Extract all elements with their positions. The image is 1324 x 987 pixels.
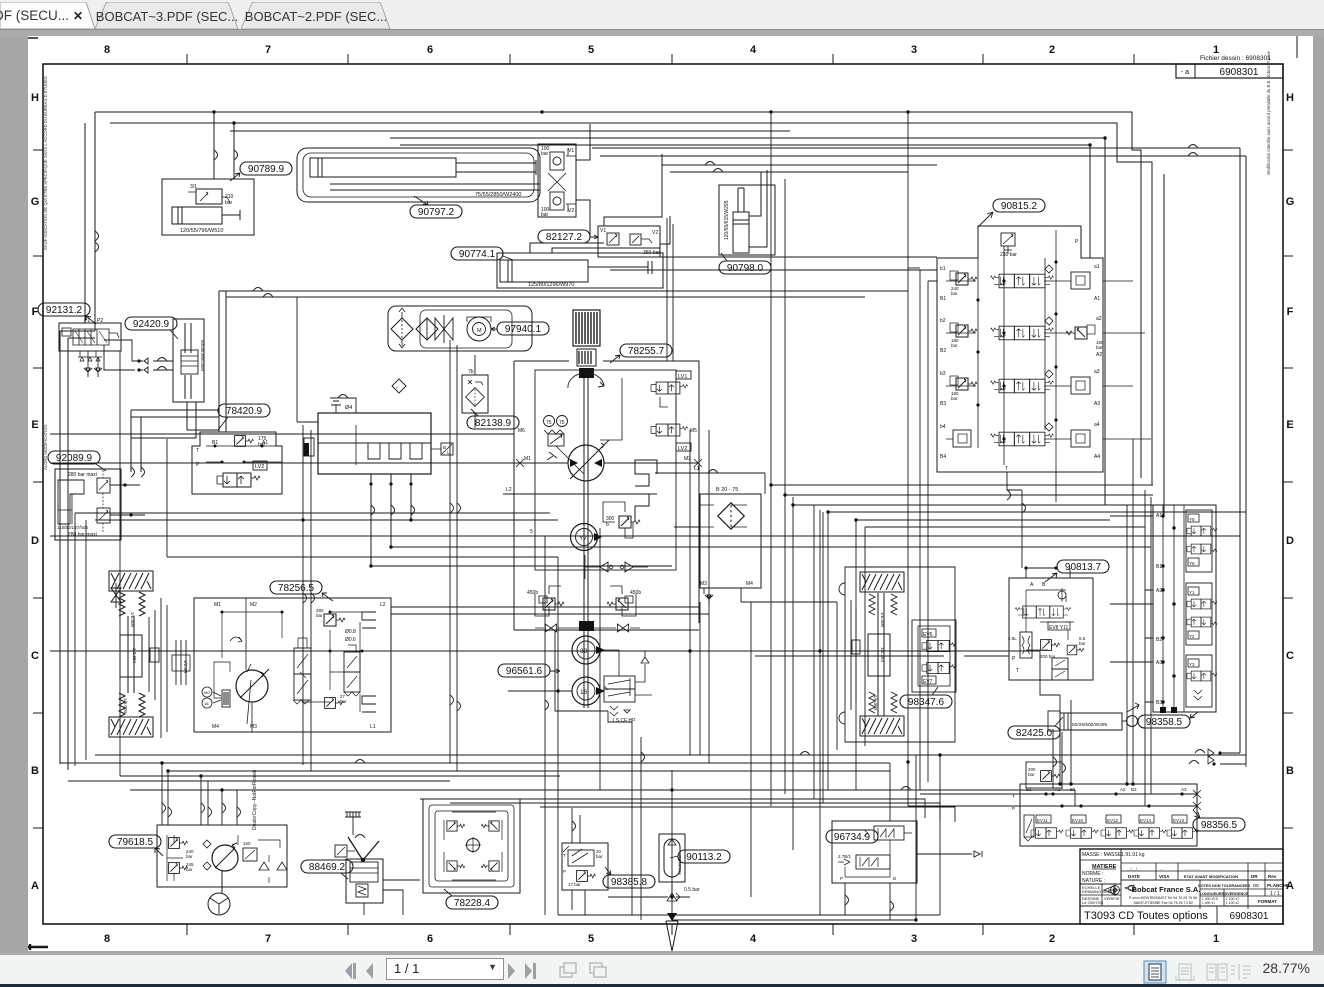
- svg-text:1/6.000: 1/6.000: [880, 612, 885, 628]
- shuttle spool right: [344, 652, 360, 672]
- svg-text:B1: B1: [1156, 564, 1162, 570]
- svg-text:B: B: [443, 445, 446, 450]
- svg-text:1/6.000: 1/6.000: [873, 695, 878, 711]
- svg-text:1/2.384: 1/2.384: [880, 647, 885, 663]
- projection symbol: [1104, 886, 1114, 894]
- svg-text:P: P: [1012, 656, 1016, 662]
- gerotor circle: [467, 839, 480, 852]
- wires into 78420.9 from top: [219, 291, 226, 432]
- wire L1 to filter: [674, 473, 765, 527]
- svg-text:M: M: [477, 328, 482, 334]
- svg-text:bar: bar: [541, 151, 549, 157]
- svg-text:H: H: [1286, 92, 1294, 104]
- svg-text:Fichier dessin : 6908301: Fichier dessin : 6908301: [1200, 55, 1271, 62]
- final drive coupling: [176, 640, 186, 685]
- callout 98356.5: [1193, 818, 1245, 831]
- svg-text:T: T: [1005, 466, 1008, 472]
- svg-text:Le 23/07/03: Le 23/07/03: [1082, 900, 1104, 905]
- svg-text:Rev: Rev: [1268, 874, 1277, 879]
- wire y557 rail: [167, 439, 558, 557]
- svg-text:B3: B3: [1131, 787, 1137, 792]
- svg-text:A1: A1: [1094, 296, 1100, 302]
- internal wires: [1026, 590, 1074, 650]
- return filter B20-75: [700, 494, 761, 588]
- track pad upper: [109, 571, 153, 591]
- callout 78228.4: [446, 896, 498, 909]
- wires 90774.1: [530, 243, 660, 253]
- svg-text:M3: M3: [700, 581, 707, 587]
- cluster boundary: [1020, 784, 1197, 846]
- svg-text:A3: A3: [1156, 660, 1162, 666]
- svg-text:a4: a4: [1094, 422, 1100, 428]
- svg-text:bar: bar: [340, 699, 347, 704]
- wire feeds right column: [1110, 516, 1153, 702]
- fan pump 16: [572, 677, 600, 705]
- svg-text:V1: V1: [568, 148, 574, 154]
- wire mid feeders: [662, 165, 937, 172]
- svg-text:3: 3: [911, 933, 917, 945]
- svg-text:bar: bar: [951, 291, 958, 296]
- svg-text:P1: P1: [84, 318, 90, 324]
- svg-text:90789.9: 90789.9: [248, 164, 285, 175]
- svg-text:B2: B2: [1070, 787, 1076, 792]
- svg-text:98358.5: 98358.5: [1146, 717, 1183, 728]
- 4 relief valves: [447, 821, 465, 831]
- svg-text:6: 6: [427, 44, 433, 56]
- svg-text:8: 8: [104, 44, 110, 56]
- svg-text:75/55/2850/W2400: 75/55/2850/W2400: [475, 192, 521, 198]
- svg-text:78256.5: 78256.5: [278, 583, 315, 594]
- svg-text:88469.2: 88469.2: [309, 862, 346, 873]
- svg-text:A: A: [1030, 582, 1034, 588]
- swing cylinder 90798.0 box: [719, 185, 775, 255]
- charge relief 300b: [619, 516, 640, 528]
- return filter 82138.9: [462, 375, 488, 413]
- port M6 line: [50, 433, 514, 435]
- svg-text:C: C: [1286, 650, 1294, 662]
- C brackets: [362, 612, 376, 712]
- svg-text:1: 1: [1213, 933, 1219, 945]
- callout 88469.2: [301, 860, 353, 873]
- svg-text:bar: bar: [1028, 772, 1035, 777]
- bottom edge ticks: [187, 924, 1134, 935]
- track pad upper: [860, 572, 904, 592]
- svg-text:B: B: [31, 765, 39, 777]
- column terminals: [1160, 707, 1166, 713]
- svg-text:VERIFIE: VERIFIE: [1104, 896, 1120, 901]
- callout 90797.2: [410, 205, 462, 218]
- relief pair left: [169, 838, 188, 849]
- axle: [878, 593, 884, 716]
- svg-text:Ø0.8: Ø0.8: [345, 629, 356, 635]
- main variable pump: [568, 445, 604, 481]
- shutoff bowtie far left: [111, 588, 121, 602]
- svg-text:120/55/615/W295: 120/55/615/W295: [724, 200, 730, 240]
- svg-text:98347.6: 98347.6: [908, 697, 945, 708]
- wires below: [1053, 729, 1062, 789]
- bobcat cell: [1121, 880, 1283, 909]
- svg-text:EV6: EV6: [923, 632, 933, 638]
- svg-text:-: -: [396, 385, 398, 391]
- svg-text:bar: bar: [951, 396, 958, 401]
- svg-text:bar: bar: [596, 854, 603, 859]
- svg-text:16: 16: [580, 689, 588, 696]
- bank outer feeds: [920, 270, 928, 790]
- svg-text:.............: .............: [1185, 866, 1199, 871]
- callout 79618.5: [109, 835, 161, 848]
- masse cell: [1080, 849, 1121, 884]
- wire y525 rail: [75, 513, 558, 766]
- top edge ticks: [187, 54, 1134, 64]
- internal wires: [222, 612, 362, 712]
- callout 90113.2: [678, 850, 730, 863]
- svg-text:L 400 ±1: L 400 ±1: [1202, 901, 1215, 905]
- svg-text:38: 38: [580, 648, 588, 655]
- bank junction dots: [976, 260, 1057, 440]
- svg-text:V2: V2: [652, 230, 658, 236]
- check 5.5 bar: [1067, 645, 1084, 655]
- callout 82425.0: [1008, 726, 1060, 739]
- callout 98385.8: [603, 875, 655, 888]
- svg-text:A3: A3: [1181, 787, 1187, 792]
- svg-text:B 20 - 75: B 20 - 75: [716, 487, 738, 493]
- solenoid module EV10: [1066, 815, 1098, 838]
- T P rails: [908, 762, 1197, 806]
- svg-text:A3: A3: [1094, 401, 1100, 407]
- wires: [364, 880, 420, 915]
- svg-text:H: H: [31, 92, 39, 104]
- wire verticals bottom: [558, 430, 940, 920]
- callout 98358.5: [1138, 715, 1190, 728]
- svg-text:EV10: EV10: [1072, 818, 1084, 823]
- brake release line: [214, 662, 230, 698]
- drive shaft: [584, 378, 588, 708]
- quick couplers pair rows: [104, 340, 140, 370]
- callout 98347.6: [900, 695, 952, 708]
- fan reversing valve: [1015, 606, 1071, 618]
- svg-text:a1: a1: [1094, 264, 1100, 270]
- svg-text:A2: A2: [1096, 352, 1102, 358]
- svg-text:LV2: LV2: [678, 446, 687, 452]
- svg-text:96734.9: 96734.9: [834, 832, 871, 843]
- charge pump Y7: [571, 524, 598, 551]
- track unit boundary: [845, 567, 955, 742]
- wire top bus 5: [400, 145, 1090, 258]
- svg-text:98385.8: 98385.8: [611, 877, 648, 888]
- port L2 line: [503, 493, 657, 495]
- svg-text:Y3: Y3: [1189, 662, 1195, 667]
- test point diamond: [392, 379, 406, 393]
- wire right trunks to couplers: [1240, 148, 1246, 764]
- valve row 4: [940, 422, 1100, 460]
- relief 450b right: [607, 598, 628, 610]
- module 1: [1186, 510, 1212, 572]
- solenoid module EV14: [1134, 815, 1166, 838]
- solenoid module EV12: [1101, 815, 1133, 838]
- boom cylinder 90797.2 body: [310, 158, 456, 177]
- svg-text:F: F: [32, 306, 39, 318]
- wire x1040 link: [1022, 439, 1133, 784]
- svg-text:LV1: LV1: [678, 374, 687, 380]
- relief 27 bar: [325, 698, 344, 709]
- revision table: [1121, 863, 1283, 880]
- page corner marks: [28, 37, 38, 39]
- pilot valve 92131.2: [59, 323, 121, 351]
- unit boundary: [157, 825, 287, 887]
- flow regulator 2.5L: [1020, 632, 1032, 658]
- svg-text:B3: B3: [1156, 700, 1162, 706]
- gear pump circle: [212, 845, 238, 871]
- callout 90774.1: [451, 247, 503, 260]
- svg-text:COTES NON TOLERANCEES: COTES NON TOLERANCEES: [1198, 884, 1251, 888]
- svg-text:T: T: [1012, 794, 1015, 799]
- axle shafts: [128, 616, 134, 693]
- svg-text:82127.2: 82127.2: [546, 232, 583, 243]
- svg-text:B: B: [1042, 582, 1046, 588]
- junction dots network: [160, 483, 941, 921]
- valve LV2b: [651, 424, 688, 436]
- oil cooler assembly boundary: [388, 306, 532, 351]
- svg-text:bar: bar: [316, 613, 323, 618]
- callout 82138.9: [467, 416, 519, 429]
- relief 450b left: [543, 598, 564, 610]
- junction dots couplers: [137, 359, 140, 371]
- svg-text:..: ..: [1160, 866, 1162, 871]
- cluster dots: [1044, 782, 1183, 807]
- svg-text:M4: M4: [212, 724, 219, 730]
- motor block boundary: [194, 598, 391, 732]
- svg-text:E: E: [1286, 419, 1293, 431]
- hose arcs left verticals: [131, 467, 135, 477]
- dark navy bottom strip: [0, 984, 1324, 987]
- svg-text:DE: DE: [1253, 883, 1259, 888]
- svg-text:78255.7: 78255.7: [628, 346, 665, 357]
- svg-text:M3: M3: [250, 724, 257, 730]
- svg-text:Modification interdite sans ac: Modification interdite sans accord preal…: [1266, 50, 1271, 175]
- valve block 78420.9: [192, 432, 282, 494]
- zone digits bottom: [104, 933, 1219, 945]
- callout 90798.0: [719, 261, 771, 274]
- pump body: [346, 859, 383, 903]
- svg-text:F: F: [1287, 306, 1294, 318]
- svg-text:5: 5: [588, 933, 594, 945]
- travel motor: [236, 670, 268, 702]
- tilt cylinder 90774.1 box: [497, 253, 663, 288]
- svg-text:78420.9: 78420.9: [226, 406, 263, 417]
- electric switch: [335, 845, 347, 857]
- brake cylinder block 92089.9: [55, 469, 121, 540]
- wire motor block taps: [391, 607, 709, 614]
- zone letters right: [1286, 92, 1295, 892]
- svg-text:L2: L2: [506, 487, 512, 493]
- svg-text:A: A: [31, 880, 39, 892]
- svg-text:P: P: [840, 876, 843, 881]
- svg-text:bar: bar: [186, 867, 193, 872]
- svg-text:1/6.000: 1/6.000: [123, 698, 128, 714]
- svg-text:5: 5: [588, 44, 594, 56]
- svg-text:3/1: 3/1: [190, 184, 197, 190]
- svg-text:B: B: [1286, 765, 1294, 777]
- svg-text:160: 160: [203, 690, 210, 695]
- svg-text:SAINT-ETIENNE Fax 04 76 25 73: SAINT-ETIENNE Fax 04 76 25 73 60: [1133, 901, 1192, 905]
- line 5 long rail: [50, 535, 1240, 537]
- shaft coupling: [579, 368, 594, 378]
- svg-text:A1: A1: [1055, 787, 1061, 792]
- svg-text:7: 7: [265, 44, 271, 56]
- fan motor 97940.1: [467, 317, 491, 341]
- wire verticals left-bottom: [120, 351, 237, 825]
- svg-text:Y7: Y7: [579, 535, 587, 542]
- svg-text:ALORS MODIFICATION: ALORS MODIFICATION: [43, 424, 48, 470]
- boom cylinder 90797.2 outer frame: [297, 148, 540, 202]
- anti-cav check pair: [600, 562, 633, 572]
- svg-text:E: E: [31, 419, 38, 431]
- wire over tank: [297, 398, 356, 422]
- wire rails to right column: [785, 490, 1153, 806]
- svg-text:__/__/__: __/__/__: [1125, 866, 1142, 871]
- svg-text:M1: M1: [214, 602, 221, 608]
- swing cylinder 90798.0 rod: [738, 188, 744, 212]
- svg-text:V1: V1: [600, 228, 606, 234]
- callout 78255.7: [620, 344, 672, 357]
- pdf viewer bottom toolbar: [0, 951, 1324, 984]
- svg-text:Y2: Y2: [1189, 634, 1195, 639]
- wire mid rails to bank: [604, 257, 937, 270]
- svg-text:D: D: [31, 535, 39, 547]
- port labels: [1026, 787, 1187, 792]
- block outline: [1009, 578, 1093, 680]
- lower spool: [1052, 658, 1068, 669]
- tank heater: [304, 438, 314, 456]
- svg-text:P: P: [563, 869, 566, 874]
- svg-text:110/50/137/hd6: 110/50/137/hd6: [57, 525, 88, 530]
- svg-text:90815.2: 90815.2: [1001, 201, 1038, 212]
- check at P: [641, 651, 649, 663]
- svg-text:bar: bar: [951, 343, 958, 348]
- callout 96561.6: [498, 664, 550, 677]
- wire vertical trunk x95: [85, 112, 95, 331]
- speed select spool: [294, 648, 311, 674]
- svg-text:T: T: [196, 448, 199, 454]
- svg-text:B1: B1: [1026, 787, 1032, 792]
- svg-text:G: G: [1286, 196, 1295, 208]
- svg-text:92089.9: 92089.9: [56, 453, 93, 464]
- relief 200 bar: [1041, 640, 1060, 651]
- low pressure check 0.5 bar: [608, 882, 690, 897]
- svg-text:16: 16: [204, 701, 209, 706]
- port dots: [1161, 514, 1175, 703]
- svg-text:B: B: [893, 876, 896, 881]
- relief 200 bar feed: [1026, 762, 1062, 788]
- port M1-M2 line: [50, 462, 699, 464]
- cylinder body 90789.9: [172, 207, 222, 224]
- svg-text:2: 2: [1049, 933, 1055, 945]
- valve row 2: [940, 316, 1104, 358]
- svg-text:M4: M4: [746, 581, 753, 587]
- svg-text:280 bar maxi: 280 bar maxi: [68, 532, 97, 538]
- junction dots: [221, 611, 364, 653]
- breather cap: [345, 812, 361, 817]
- svg-text:6908301: 6908301: [1230, 911, 1269, 922]
- svg-text:1/2.384: 1/2.384: [132, 648, 137, 664]
- svg-text:T3093 CD Toutes options: T3093 CD Toutes options: [1084, 910, 1208, 922]
- svg-text:- a: - a: [1181, 69, 1189, 76]
- svg-text:PLANCHE: PLANCHE: [1267, 883, 1289, 888]
- callout 90813.7: [1057, 560, 1109, 573]
- check top: [1058, 591, 1066, 599]
- svg-text:L1: L1: [370, 724, 376, 730]
- svg-text:2.7B/1: 2.7B/1: [838, 854, 852, 859]
- callout 92131.2: [38, 303, 90, 316]
- svg-text:LONGUEURS: LONGUEURS: [1200, 892, 1225, 896]
- bank outline: [937, 226, 1103, 472]
- wires 92089.9 right: [110, 485, 145, 515]
- svg-text:7b: 7b: [468, 369, 474, 375]
- scale cells: [1080, 884, 1121, 906]
- final drive gearbox: [120, 635, 142, 677]
- svg-text:C: C: [31, 650, 39, 662]
- svg-text:3: 3: [911, 44, 917, 56]
- cooler filter diamonds: [391, 318, 413, 340]
- svg-text:P2: P2: [97, 318, 103, 324]
- svg-text:bar: bar: [541, 212, 549, 218]
- svg-text:G: G: [31, 196, 40, 208]
- svg-text:P: P: [1075, 239, 1079, 245]
- svg-text:MASSE : MASSE1.91.91 kg: MASSE : MASSE1.91.91 kg: [1082, 852, 1145, 858]
- left long verticals: [60, 331, 95, 770]
- svg-text:L1: L1: [694, 466, 700, 472]
- callout 92420.9: [125, 317, 177, 330]
- svg-text:60/30/300/2x60: 60/30/300/2x60: [200, 340, 205, 372]
- svg-text:EV11: EV11: [1037, 818, 1048, 823]
- svg-text:bar: bar: [186, 854, 193, 859]
- wires 90798.0: [749, 170, 767, 247]
- svg-text:50/25/500/W395: 50/25/500/W395: [1072, 722, 1108, 728]
- drains under 92131.2: [84, 368, 92, 377]
- lower spool: [856, 855, 890, 869]
- svg-text:75: 75: [546, 420, 552, 426]
- svg-text:75: 75: [559, 420, 565, 426]
- isolation bowties: [545, 624, 556, 632]
- pilot reducer 210 bar: [1001, 233, 1015, 246]
- solenoid module EV13: [1167, 815, 1199, 838]
- svg-text:230 bar: 230 bar: [1000, 252, 1017, 258]
- hose arcs below bank: [1007, 490, 1011, 500]
- svg-text:LS CF HP: LS CF HP: [613, 718, 636, 724]
- svg-text:B3: B3: [940, 401, 946, 407]
- svg-text:7: 7: [265, 933, 271, 945]
- LS/CF regulator valve: [604, 676, 635, 689]
- left edge ticks: [33, 150, 43, 828]
- svg-text:8: 8: [104, 933, 110, 945]
- svg-text:M1: M1: [524, 456, 531, 462]
- svg-text:T: T: [563, 853, 566, 858]
- wires from 92420.9 down: [131, 402, 219, 438]
- wires from counterbalance block: [576, 124, 590, 236]
- svg-text:120/55/796/W510: 120/55/796/W510: [180, 228, 223, 234]
- svg-text:L 100 ±2: L 100 ±2: [1226, 901, 1239, 905]
- callout 90815.2: [993, 199, 1045, 212]
- suspension springs: [119, 592, 145, 717]
- wire verticals into 90789.9: [214, 112, 234, 179]
- bank internal rails: [978, 230, 1056, 472]
- tilt cylinder 90774.1 rod: [588, 261, 652, 274]
- svg-text:L2: L2: [380, 602, 386, 608]
- heat bypass zigzag: [635, 460, 657, 520]
- svg-text:D: D: [1286, 535, 1294, 547]
- svg-text:Y1: Y1: [1189, 590, 1195, 595]
- hydraulic tank: [318, 413, 431, 474]
